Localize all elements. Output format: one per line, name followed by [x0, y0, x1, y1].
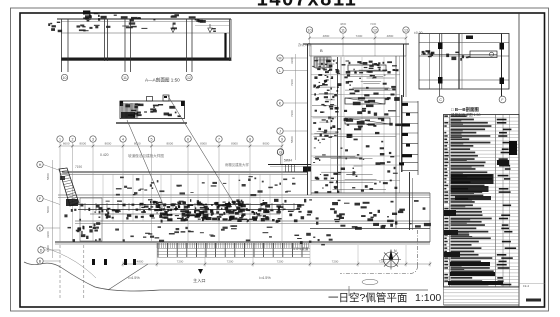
- ramp bottom dark marks: [66, 199, 78, 206]
- svg-text:3300: 3300: [290, 57, 294, 64]
- section rooftop equipment clutter: [131, 17, 138, 19]
- right wing bottom rooms: [311, 192, 430, 194]
- svg-text:8000: 8000: [79, 142, 86, 146]
- plan left axis circle E: [37, 225, 43, 231]
- section right thick column: [224, 33, 226, 58]
- right wing inner main wall: [337, 57, 339, 193]
- plan top axis dim line: [60, 145, 282, 147]
- room band clutter above corridor: [283, 179, 287, 181]
- legend dark wide rows: [451, 174, 494, 184]
- axis circle G at wing junction: [277, 149, 283, 155]
- svg-text:4800: 4800: [340, 22, 347, 26]
- svg-text:J: J: [279, 130, 281, 134]
- section flag symbol: [83, 11, 90, 15]
- svg-text:7200: 7200: [290, 110, 294, 117]
- detail B top label: [466, 36, 473, 40]
- plan top axis circle 6: [185, 136, 191, 142]
- svg-text:6: 6: [187, 138, 189, 142]
- svg-text:办公入口: 办公入口: [298, 42, 311, 47]
- detail B duct run: [421, 54, 497, 56]
- section axis circles 10 11 12: [61, 74, 67, 80]
- svg-text:3300: 3300: [46, 231, 50, 238]
- svg-text:7200: 7200: [277, 260, 284, 264]
- pilotis columns under overhang: [92, 259, 95, 265]
- site boundary curve: [24, 262, 428, 291]
- left small fixtures: [74, 209, 76, 211]
- svg-text:B: B: [320, 48, 323, 53]
- svg-text:主入口: 主入口: [193, 277, 206, 283]
- svg-text:9: 9: [281, 138, 283, 142]
- canopy columns: [157, 243, 159, 257]
- svg-text:0.420: 0.420: [100, 153, 109, 157]
- detail interior clutter: [134, 113, 138, 115]
- main entrance arrow: [198, 269, 203, 274]
- detail plan box: [120, 101, 185, 119]
- wing junction wall G row: [268, 164, 311, 166]
- svg-text:8: 8: [249, 138, 251, 142]
- svg-text:4.5%坡道: 4.5%坡道: [293, 246, 309, 251]
- svg-text:12: 12: [187, 76, 191, 80]
- annex black cells: [402, 103, 408, 106]
- right wing top axis circles: [306, 27, 312, 33]
- legend rows: [444, 117, 520, 119]
- svg-text:7200: 7200: [227, 260, 234, 264]
- plan top axis circle 7: [216, 136, 222, 142]
- svg-text:H: H: [39, 163, 42, 167]
- right wing stair hatch: [314, 58, 316, 68]
- svg-text:1:100: 1:100: [415, 292, 441, 304]
- dashed grid extensions bottom-left: [59, 245, 61, 298]
- section mid line: [61, 32, 229, 34]
- wing top wall: [62, 171, 307, 173]
- plan top axis circle 4: [120, 136, 126, 142]
- svg-text:13: 13: [404, 29, 408, 33]
- legend table frame: [444, 115, 520, 288]
- section drawing A-A top beam line: [57, 18, 231, 20]
- svg-text:±0.00: ±0.00: [414, 31, 423, 35]
- wing bottom wall: [55, 241, 430, 243]
- svg-text:11: 11: [341, 29, 345, 33]
- svg-text:G: G: [279, 151, 282, 155]
- right wing interior room lines: [311, 74, 400, 76]
- detail corner columns: [120, 101, 124, 106]
- svg-text:1407x811: 1407x811: [257, 0, 358, 11]
- left rooms clutter: [80, 198, 102, 241]
- title block divider line: [518, 13, 520, 307]
- svg-text:7200: 7200: [370, 22, 377, 26]
- svg-text:M: M: [279, 57, 282, 61]
- wing extra partitions: [102, 174, 104, 221]
- plan left axis circle D: [38, 247, 44, 253]
- svg-text:19-4: 19-4: [523, 284, 529, 288]
- corridor lighter clutter right: [294, 219, 298, 222]
- canopy extension lines: [156, 245, 158, 262]
- svg-text:5000: 5000: [46, 206, 50, 213]
- detail B axis circles: [437, 96, 444, 103]
- svg-text:一日空?佩管平面: 一日空?佩管平面: [328, 291, 407, 304]
- svg-text:8000: 8000: [105, 142, 112, 146]
- plan left axis circle H: [37, 161, 43, 167]
- svg-text:10: 10: [308, 29, 312, 33]
- right wing NE annex ladder: [401, 95, 403, 172]
- detail top tabs: [147, 97, 153, 102]
- svg-text:3: 3: [92, 138, 94, 142]
- svg-text:A—A剖面图 1:50: A—A剖面图 1:50: [145, 77, 180, 84]
- svg-text:8000: 8000: [200, 142, 207, 146]
- detail plan base line: [116, 122, 187, 124]
- plan top axis circle 1: [57, 136, 63, 142]
- plan left axis circle F: [37, 195, 43, 201]
- svg-text:D: D: [40, 249, 43, 253]
- right wing interior clutter: [325, 101, 329, 102]
- svg-text:i=4.5%: i=4.5%: [259, 276, 271, 280]
- boundary dash-dot right: [417, 230, 419, 266]
- junction vertical walls: [285, 165, 287, 173]
- room band clutter below corridor: [123, 239, 125, 241]
- svg-text:11: 11: [123, 76, 127, 80]
- canopy hatch band: [156, 243, 158, 248]
- svg-text:8000: 8000: [134, 142, 141, 146]
- svg-text:坡道做法见建施大样图: 坡道做法见建施大样图: [128, 153, 164, 158]
- driveway edge line: [108, 264, 148, 290]
- detail B column squares: [438, 43, 443, 50]
- svg-text:4: 4: [122, 138, 124, 142]
- right wing top dim line: [310, 37, 407, 39]
- right wing inner corridor line: [395, 56, 397, 228]
- plan top axis circle 8: [247, 136, 253, 142]
- detail B outer box: [419, 34, 509, 90]
- plan top axis circle 9: [279, 136, 285, 142]
- svg-text:10: 10: [63, 76, 67, 80]
- svg-text:5: 5: [151, 138, 153, 142]
- detail left hatch: [121, 103, 123, 118]
- plan left axis circle B: [37, 258, 43, 264]
- svg-text:7200: 7200: [177, 260, 184, 264]
- svg-text:5800: 5800: [290, 136, 294, 143]
- section columns: [61, 19, 63, 72]
- svg-text:L: L: [279, 69, 281, 73]
- svg-text:C: C: [439, 98, 442, 102]
- right wing left wall: [307, 44, 309, 195]
- svg-text:8000: 8000: [166, 142, 173, 146]
- svg-text:2: 2: [72, 138, 74, 142]
- bottom dim line: [123, 263, 430, 265]
- plan top axis circle 3: [90, 136, 96, 142]
- wing interior wall lines: [58, 194, 430, 196]
- svg-text:□ B—B剖面图: □ B—B剖面图: [451, 106, 479, 113]
- detail leader lines: [127, 120, 167, 214]
- plan left dim line: [52, 160, 54, 258]
- legend bottom sparse rows: [444, 289, 520, 291]
- svg-text:雨棚见建施大样: 雨棚见建施大样: [225, 162, 249, 167]
- section left small marks: [51, 28, 55, 31]
- corridor duct clutter center blob: [263, 202, 268, 204]
- svg-text:4800: 4800: [387, 34, 394, 38]
- svg-text:12: 12: [373, 29, 377, 33]
- section under-beam duct clutter: [141, 28, 147, 29]
- detail B horizontal lines: [419, 42, 509, 44]
- corridor duct clutter heavy: [143, 210, 145, 213]
- svg-text:7: 7: [218, 138, 220, 142]
- right wing left dim line: [295, 54, 297, 160]
- plan top axis circle 2: [69, 136, 75, 142]
- right wing duct rects: [345, 98, 385, 104]
- svg-text:i=4.5%: i=4.5%: [128, 276, 140, 280]
- svg-text:8000: 8000: [263, 142, 270, 146]
- svg-text:4800: 4800: [137, 260, 144, 264]
- svg-text:7200: 7200: [356, 34, 363, 38]
- section bottom slab band: [61, 58, 231, 61]
- detail B vertical lines: [429, 34, 431, 90]
- svg-text:7190: 7190: [75, 165, 82, 169]
- wing vertical grid partitions: [59, 149, 61, 242]
- svg-text:5800: 5800: [46, 173, 50, 180]
- right wing top wall: [303, 43, 409, 45]
- shrub ellipse: [362, 279, 378, 284]
- corridor main duct run lines: [78, 204, 300, 206]
- left ramp hatched: [59, 168, 79, 206]
- svg-text:4800: 4800: [323, 34, 330, 38]
- right wing right wall: [403, 44, 405, 97]
- svg-text:7200: 7200: [332, 260, 339, 264]
- entrance steps: [157, 248, 310, 250]
- right wing left axis circles: [277, 55, 283, 61]
- plan top axis circle 5: [148, 136, 154, 142]
- svg-text:8000: 8000: [231, 142, 238, 146]
- svg-text:6600: 6600: [63, 142, 70, 146]
- svg-text:5#M4: 5#M4: [284, 159, 292, 163]
- section funnel symbols: [171, 28, 175, 33]
- svg-text:1: 1: [59, 138, 61, 142]
- compass rose: [381, 250, 401, 270]
- svg-text:7200: 7200: [290, 79, 294, 86]
